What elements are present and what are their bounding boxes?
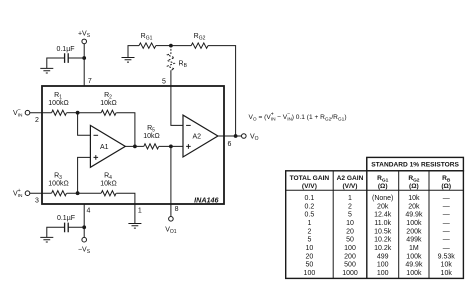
table column line 4	[428, 171, 430, 279]
resistor R4	[101, 191, 116, 196]
svg-text:100kΩ: 100kΩ	[48, 100, 68, 107]
svg-text:2: 2	[35, 117, 39, 124]
output terminal VO1	[169, 217, 174, 222]
wire capacitor C2 to ground	[47, 227, 65, 237]
svg-text:(V/V): (V/V)	[302, 183, 317, 190]
svg-text:0.1µF: 0.1µF	[57, 215, 75, 222]
svg-text:VO: VO	[250, 134, 259, 143]
svg-text:100k: 100k	[406, 253, 422, 260]
svg-text:50: 50	[306, 262, 314, 269]
wire node to R2	[78, 112, 102, 114]
svg-text:5: 5	[307, 237, 311, 244]
svg-text:10kΩ: 10kΩ	[100, 181, 117, 188]
ground pin 1	[128, 224, 141, 229]
svg-text:RB: RB	[179, 61, 188, 70]
svg-text:1: 1	[138, 208, 142, 215]
capacitor C2 0.1uF	[65, 223, 69, 233]
svg-text:100: 100	[304, 270, 316, 277]
A2 plus sign	[186, 144, 191, 149]
op-amp A1	[90, 125, 125, 167]
svg-text:499: 499	[377, 253, 389, 260]
resistor R2	[101, 110, 116, 115]
wire R5 to A2 non-inverting input	[159, 145, 183, 147]
svg-text:49.9k: 49.9k	[405, 212, 423, 219]
input terminal VIN+	[25, 191, 30, 196]
svg-text:—: —	[443, 228, 450, 235]
svg-text:500: 500	[344, 262, 356, 269]
svg-text:20: 20	[346, 228, 354, 235]
svg-text:2: 2	[307, 228, 311, 235]
wire junction to capacitor C2	[68, 226, 84, 228]
svg-text:—: —	[443, 203, 450, 210]
A2 minus sign	[186, 124, 191, 126]
svg-text:5: 5	[348, 212, 352, 219]
wire VIN- to R1	[30, 112, 52, 114]
wire +VS to pin 7	[83, 44, 85, 86]
ground RG1	[122, 58, 135, 63]
svg-text:5: 5	[162, 79, 166, 86]
svg-text:+VS: +VS	[78, 31, 91, 40]
A1 plus sign	[94, 155, 99, 160]
svg-text:A2 GAIN: A2 GAIN	[337, 175, 364, 182]
svg-text:6: 6	[228, 141, 232, 148]
resistor R5	[144, 144, 159, 149]
svg-text:2: 2	[348, 203, 352, 210]
svg-text:10: 10	[306, 245, 314, 252]
svg-text:12.4k: 12.4k	[374, 212, 392, 219]
svg-text:—: —	[443, 237, 450, 244]
wire R2 to A1 output node	[116, 113, 135, 147]
svg-text:RG2: RG2	[194, 33, 206, 42]
svg-text:VO = (VIN+ − VIN−) 0.1 (1 + RG: VO = (VIN+ − VIN−) 0.1 (1 + RG2/RG1)	[249, 112, 347, 123]
wire node to VO1 terminal	[170, 146, 172, 216]
wire node to A1 inverting input	[78, 113, 91, 136]
svg-text:100: 100	[344, 245, 356, 252]
node A1 inverting	[76, 111, 80, 115]
svg-text:0.2: 0.2	[305, 203, 315, 210]
svg-text:INA146: INA146	[194, 196, 219, 205]
wire ground to RG1	[128, 46, 139, 58]
resistor RB (dashed, optional)	[168, 46, 175, 71]
resistor RG1	[139, 43, 156, 48]
node output junction	[234, 134, 238, 138]
svg-text:STANDARD 1% RESISTORS: STANDARD 1% RESISTORS	[371, 162, 459, 169]
table outer border	[286, 171, 464, 279]
svg-text:20k: 20k	[408, 203, 420, 210]
svg-text:20k: 20k	[377, 203, 389, 210]
input terminal VIN-	[25, 110, 30, 115]
table column line 1	[332, 171, 334, 279]
wire A2 output to VO terminal	[218, 135, 242, 137]
wire A1 output to R5	[125, 145, 144, 147]
svg-text:RG1: RG1	[141, 33, 153, 42]
svg-text:3: 3	[35, 198, 39, 205]
table data rows	[304, 195, 456, 277]
ground top-left	[40, 68, 53, 73]
svg-text:1000: 1000	[342, 270, 358, 277]
svg-text:10.2k: 10.2k	[374, 245, 392, 252]
wire R4 to pin 1 ground	[116, 193, 135, 223]
svg-text:(V/V): (V/V)	[342, 183, 357, 190]
IC outline INA146	[42, 86, 224, 204]
svg-text:A2: A2	[193, 133, 202, 140]
svg-text:—: —	[443, 220, 450, 227]
wire VIN+ to R3	[30, 192, 52, 194]
table column line 2	[366, 157, 368, 278]
svg-text:VO1: VO1	[165, 227, 177, 236]
node pin 8 junction	[169, 145, 173, 149]
svg-text:11.0k: 11.0k	[374, 220, 391, 227]
svg-text:10.5k: 10.5k	[374, 228, 392, 235]
svg-text:—: —	[443, 195, 450, 202]
wire R3 to node to R4	[67, 192, 102, 194]
svg-text:10k: 10k	[441, 270, 453, 277]
A1 minus sign	[94, 134, 99, 136]
resistor R1	[52, 110, 67, 115]
resistor R3	[52, 191, 67, 196]
wire capacitor to ground	[47, 58, 65, 68]
pin 4 wire to -VS	[83, 204, 85, 237]
svg-text:(Ω): (Ω)	[378, 183, 388, 190]
svg-text:10kΩ: 10kΩ	[143, 133, 160, 140]
wire RG1 to node	[156, 45, 171, 47]
svg-text:49.9k: 49.9k	[405, 262, 423, 269]
node RG junction	[169, 44, 173, 48]
wire RB to pin 5 and A2 inverting input	[171, 70, 183, 125]
svg-text:100kΩ: 100kΩ	[48, 181, 68, 188]
table standard 1% resistors	[286, 157, 464, 278]
svg-text:499k: 499k	[406, 237, 422, 244]
supply terminal +VS	[82, 39, 87, 44]
table column line 3	[398, 171, 400, 279]
wire A1 plus to R3 node	[78, 157, 91, 193]
svg-text:100: 100	[377, 262, 389, 269]
svg-text:4: 4	[87, 208, 91, 215]
wire node to RG2	[171, 45, 191, 47]
svg-text:VIN−: VIN−	[13, 108, 23, 119]
svg-text:10k: 10k	[408, 195, 420, 202]
svg-text:VIN+: VIN+	[13, 188, 23, 199]
svg-text:100: 100	[377, 270, 389, 277]
svg-text:100k: 100k	[406, 270, 422, 277]
ground bottom-left	[40, 237, 53, 242]
svg-text:100k: 100k	[406, 220, 422, 227]
op-amp A2	[183, 115, 218, 157]
svg-text:10: 10	[346, 220, 354, 227]
capacitor C1 0.1uF	[65, 53, 69, 63]
node supply junction	[82, 56, 86, 60]
wire R1 to node	[67, 112, 78, 114]
svg-text:0.1: 0.1	[305, 195, 315, 202]
svg-text:7: 7	[88, 78, 92, 85]
svg-text:A1: A1	[100, 144, 109, 151]
svg-text:(Ω): (Ω)	[409, 183, 419, 190]
wire RG2 to output node	[208, 46, 236, 136]
svg-text:10kΩ: 10kΩ	[100, 100, 117, 107]
node A1 non-inverting	[76, 191, 80, 195]
svg-text:200: 200	[344, 253, 356, 260]
table header box STANDARD 1% RESISTORS	[367, 157, 464, 170]
svg-text:200k: 200k	[406, 228, 422, 235]
svg-text:(None): (None)	[372, 195, 393, 202]
node A1 output	[133, 145, 137, 149]
node -VS junction	[82, 225, 86, 229]
table header separator	[286, 189, 464, 191]
svg-text:0.1µF: 0.1µF	[56, 46, 74, 53]
svg-text:0.5: 0.5	[305, 212, 315, 219]
svg-text:(Ω): (Ω)	[441, 183, 451, 190]
svg-text:8: 8	[175, 206, 179, 213]
svg-text:—: —	[443, 212, 450, 219]
svg-text:10.2k: 10.2k	[374, 237, 392, 244]
svg-text:TOTAL GAIN: TOTAL GAIN	[290, 175, 330, 182]
output terminal VO	[242, 134, 247, 139]
svg-text:—: —	[443, 245, 450, 252]
svg-text:9.53k: 9.53k	[438, 253, 456, 260]
svg-text:50: 50	[346, 237, 354, 244]
svg-text:1: 1	[307, 220, 311, 227]
wire junction to capacitor	[68, 57, 84, 59]
svg-text:−VS: −VS	[78, 247, 91, 256]
resistor RG2	[191, 43, 208, 48]
svg-text:20: 20	[306, 253, 314, 260]
svg-text:1M: 1M	[409, 245, 419, 252]
svg-text:10k: 10k	[441, 262, 453, 269]
svg-text:1: 1	[348, 195, 352, 202]
supply terminal -VS	[82, 237, 87, 242]
